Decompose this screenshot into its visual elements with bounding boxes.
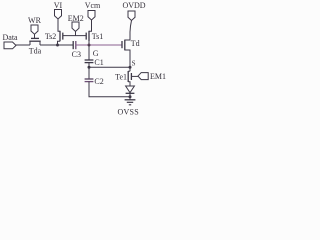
pin Data (input terminal, points right) [4, 42, 16, 49]
node G junction dot [88, 44, 91, 47]
svg-text:EM1: EM1 [150, 72, 166, 81]
pin EM2 (terminal, points down) [72, 22, 79, 31]
wire WR pin to Tda gate [34, 34, 36, 39]
transistor Te1 (emission TFT, gate on right) [128, 67, 131, 86]
transistor Td (drive TFT, gate on left) [122, 40, 130, 68]
capacitor C2 (between S and OVSS) [85, 79, 94, 82]
wire OVDD pin to Td drain [125, 21, 132, 41]
svg-text:OVSS: OVSS [117, 107, 138, 116]
wire VI pin to Ts2 drain [58, 19, 60, 31]
pin VI (terminal, points down) [55, 10, 62, 20]
svg-text:C1: C1 [94, 58, 103, 67]
wire node S horizontal run [89, 66, 130, 68]
svg-text:Te1: Te1 [115, 73, 127, 82]
ground OVSS symbol [125, 100, 136, 105]
wire C2 bottom to OLED cathode [89, 82, 130, 97]
svg-text:WR: WR [28, 16, 42, 25]
wire node G net C3 to Td gate (violet) [76, 44, 122, 46]
svg-text:Td: Td [131, 39, 140, 48]
pin WR (terminal, points down) [31, 25, 38, 34]
svg-text:C3: C3 [72, 50, 81, 59]
svg-text:Ts2: Ts2 [45, 32, 56, 41]
wire gate bus Ts2 gate to Ts1 gate [63, 35, 86, 37]
svg-text:Vcm: Vcm [85, 1, 101, 10]
svg-text:Ts1: Ts1 [92, 32, 103, 41]
svg-text:S: S [132, 60, 136, 68]
pin OVDD (terminal, points down) [128, 11, 135, 21]
transistor Tda (horizontal TFT, gate on top) [29, 38, 40, 45]
node junction at OLED cathode / C2 return [129, 95, 132, 98]
wire Vcm pin to Ts1 drain [89, 20, 92, 31]
capacitor C3 (series in data line) [73, 41, 76, 49]
diode OLED (anode top, cathode bottom) [126, 86, 135, 100]
svg-text:EM2: EM2 [68, 14, 84, 23]
wire EM2 pin to gate bus [75, 31, 77, 35]
svg-text:OVDD: OVDD [122, 1, 145, 10]
wire Tda drain to C3 left plate [40, 44, 73, 46]
capacitor C1 (between G and S) [85, 60, 94, 63]
svg-text:Tda: Tda [29, 47, 42, 56]
svg-text:G: G [93, 49, 99, 58]
wire C1 bottom to node S wire and to C2 [88, 63, 90, 79]
svg-text:C2: C2 [94, 77, 103, 86]
pin Vcm (terminal, points down) [88, 11, 95, 21]
wire Data to Tda source [16, 44, 30, 46]
transistor Ts1 (vertical TFT, gate on left) [86, 31, 89, 45]
pin EM1 (terminal, points left) [138, 73, 148, 80]
wire node G down to C1 [88, 45, 90, 60]
node junction at Ts2 source [56, 44, 59, 47]
svg-text:VI: VI [54, 1, 63, 10]
wire Te1 gate to EM1 pin [131, 75, 138, 77]
node junction at C1 bottom [88, 66, 91, 69]
node S junction dot [129, 66, 132, 69]
svg-text:Data: Data [3, 33, 19, 42]
transistor Ts2 (vertical TFT, gate on right) [58, 31, 63, 45]
